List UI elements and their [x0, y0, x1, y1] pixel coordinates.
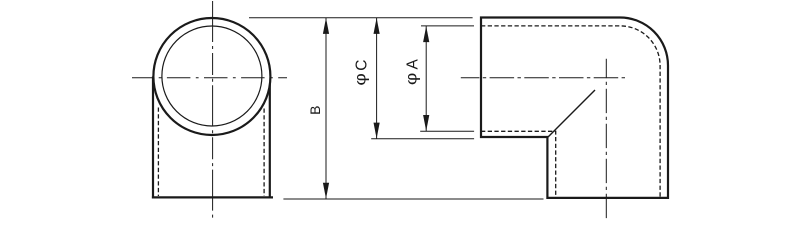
front view: hidden bore line left	[157, 108, 159, 197]
svg-text:A: A	[404, 58, 421, 69]
front view: vertical leg left edge	[152, 77, 154, 199]
front view: vertical center line	[212, 1, 214, 219]
side view: elbow outline with rounded outer corner	[481, 18, 668, 198]
dimension line phi-C (vertical, double arrows)	[376, 18, 378, 139]
side view: internal miter transition diagonal line	[548, 90, 595, 137]
side view: horizontal center line	[461, 77, 626, 79]
dimension line phi-A (vertical, double arrows)	[425, 26, 427, 131]
extension line: top of part (B and phi-C upper reference)	[249, 17, 473, 19]
extension line: phi-A lower reference	[420, 130, 474, 132]
side view: hidden bore of vertical leg (dashed L)	[481, 131, 556, 198]
svg-text:φ: φ	[351, 73, 369, 85]
front view: horizontal center line	[132, 77, 287, 79]
extension line: phi-C lower reference	[371, 138, 474, 140]
front view: socket bore inner circle	[162, 26, 262, 126]
dimension line B (vertical, double arrows)	[325, 18, 327, 199]
front view: vertical leg right edge	[269, 77, 271, 199]
extension line: phi-A upper reference	[421, 25, 474, 27]
front view: hidden bore line right	[263, 109, 265, 197]
svg-text:B: B	[307, 106, 323, 115]
front view: socket outer circle	[153, 18, 270, 135]
svg-text:φ: φ	[402, 73, 420, 85]
front view: vertical leg bottom edge	[152, 196, 273, 198]
side view: hidden bore of horizontal leg (top dashed line + dashed corner arc + right dashed vertical)	[481, 26, 660, 198]
svg-text:C: C	[354, 60, 371, 71]
extension line: bottom of part (B lower reference)	[283, 198, 543, 200]
side view: vertical center line	[605, 59, 607, 220]
